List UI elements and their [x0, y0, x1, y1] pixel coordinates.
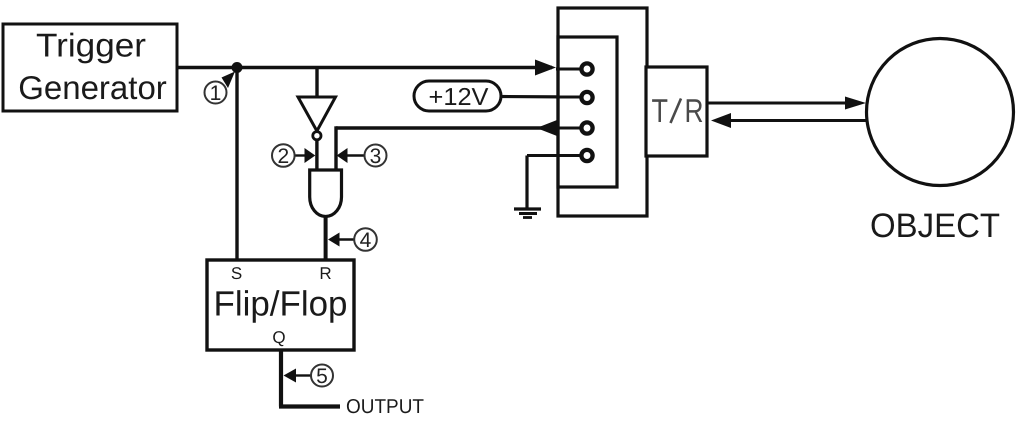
svg-text:OUTPUT: OUTPUT — [346, 396, 424, 418]
svg-text:Flip/Flop: Flip/Flop — [214, 285, 348, 324]
svg-text:4: 4 — [360, 229, 372, 252]
svg-text:OBJECT: OBJECT — [870, 207, 1000, 245]
svg-text:Trigger: Trigger — [36, 27, 146, 64]
svg-text:Generator: Generator — [18, 69, 167, 106]
svg-text:T: T — [652, 92, 669, 129]
svg-text:R: R — [685, 92, 704, 129]
svg-text:2: 2 — [277, 145, 289, 168]
svg-text:3: 3 — [370, 145, 382, 168]
svg-text:1: 1 — [210, 82, 222, 105]
svg-text:R: R — [319, 264, 331, 283]
svg-text:S: S — [231, 264, 242, 283]
svg-text:+12V: +12V — [429, 84, 490, 111]
svg-text:5: 5 — [316, 365, 328, 388]
svg-text:Q: Q — [272, 328, 285, 347]
